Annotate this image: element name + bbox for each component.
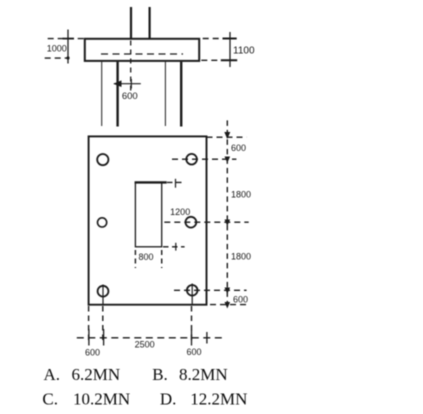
pile left outer edge (thin, elevation)	[101, 62, 103, 126]
arrow right chain at middle pile row	[225, 220, 231, 227]
extension dashed at plan top edge	[207, 136, 247, 138]
svg-text:A.: A.	[44, 365, 61, 384]
tick 1100 bottom	[221, 59, 237, 61]
tick right chain at plan bottom edge	[225, 302, 231, 309]
pile circle bottom-left	[98, 286, 109, 297]
vertical centerline through bottom-right pile	[191, 284, 193, 305]
arrow right chain at top pile row	[225, 157, 231, 164]
pile cap outline (plan view)	[89, 136, 207, 304]
svg-text:8.2MN: 8.2MN	[179, 365, 228, 384]
svg-text:B.: B.	[152, 365, 168, 384]
svg-text:600: 600	[233, 295, 248, 305]
svg-text:1800: 1800	[231, 189, 251, 199]
svg-text:1000: 1000	[47, 44, 67, 54]
tick 1200 top	[175, 179, 177, 188]
svg-text:C.: C.	[42, 390, 58, 409]
centerline through middle-right pile	[164, 221, 248, 223]
pile circle middle-left	[98, 218, 107, 227]
svg-text:1200: 1200	[170, 207, 190, 217]
tick bottom chain at plan left edge	[88, 329, 90, 346]
svg-text:2500: 2500	[135, 340, 155, 350]
pile circle top-left	[97, 154, 108, 165]
svg-text:1800: 1800	[231, 252, 251, 262]
svg-text:600: 600	[122, 91, 138, 102]
column left edge (elevation)	[130, 7, 132, 39]
extension dashed below column left (800)	[134, 250, 136, 268]
tick bottom chain at right pile	[191, 330, 193, 346]
svg-text:D.: D.	[160, 390, 177, 409]
dimension line 600 (elevation)	[114, 83, 141, 85]
arrow right chain at bottom pile row	[225, 288, 231, 295]
column outline (plan view)	[135, 182, 161, 246]
tick 600 (elevation)	[130, 79, 132, 89]
arrowhead at plan top edge	[224, 132, 230, 139]
column outline top edge thick (plan)	[135, 181, 167, 183]
centerline through bottom-right pile	[174, 289, 247, 291]
extension dashed below plan left edge	[88, 306, 90, 344]
extension dashed top (1100)	[203, 38, 236, 40]
extension dashed below bottom-left pile	[102, 306, 104, 344]
svg-text:6.2MN: 6.2MN	[72, 365, 121, 384]
pile cap outline (elevation)	[85, 39, 199, 61]
bottom dimension chain line	[77, 337, 225, 339]
tick 1100 top	[223, 38, 237, 40]
pile cap hidden dashed line	[101, 53, 183, 55]
extension dashed below bottom-right pile	[191, 306, 193, 344]
tick bottom chain at plan right edge	[206, 332, 208, 344]
pile circle bottom-right	[187, 285, 198, 296]
tick bottom chain at left pile	[103, 329, 105, 346]
centerline through top-right pile	[172, 158, 236, 160]
dimension line 1100 vertical	[229, 32, 231, 67]
arrowhead 600 (elevation)	[113, 80, 121, 87]
dimension 1200 bottom extension	[163, 246, 185, 248]
extension dashed below column right (800)	[161, 250, 163, 268]
column dashed centerline	[130, 41, 132, 93]
right dimension chain line	[226, 120, 228, 308]
svg-text:800: 800	[138, 252, 153, 262]
tick 1000 bottom	[66, 56, 69, 59]
svg-text:600: 600	[186, 347, 201, 357]
extension dashed bottom (1000)	[45, 57, 68, 59]
dimension line 1000 vertical	[67, 30, 69, 64]
tick 1000 top	[63, 38, 75, 40]
extension dashed at plan bottom edge	[210, 304, 248, 306]
dimension 1200 top extension	[167, 181, 184, 183]
svg-text:12.2MN: 12.2MN	[190, 390, 247, 409]
pile circle top-right	[186, 154, 197, 165]
column right edge (elevation)	[149, 7, 151, 39]
svg-text:600: 600	[85, 348, 100, 358]
pile left inner edge (thick, elevation)	[116, 62, 118, 127]
svg-text:1100: 1100	[233, 46, 255, 57]
svg-text:600: 600	[231, 143, 246, 153]
tick 1200 bottom	[175, 243, 177, 251]
vertical centerline through bottom-left pile	[102, 285, 104, 305]
pile right outer edge (thin, elevation)	[164, 62, 166, 126]
pile circle middle-right	[186, 217, 197, 228]
svg-text:10.2MN: 10.2MN	[73, 390, 130, 409]
pile right inner edge (thick, elevation)	[180, 62, 182, 127]
extension dashed bottom (1100)	[201, 59, 236, 61]
extension dashed top (1000)	[48, 38, 88, 40]
